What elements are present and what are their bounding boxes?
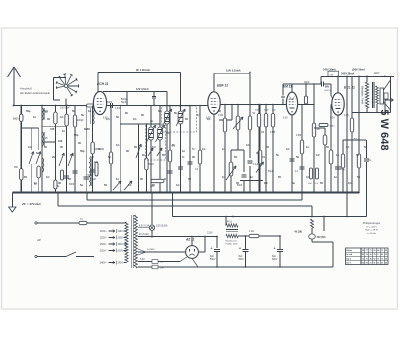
- svg-text:500V: 500V: [272, 259, 278, 261]
- svg-text:0,2: 0,2: [166, 117, 170, 121]
- svg-text:0,1: 0,1: [222, 175, 226, 179]
- svg-text:0,1: 0,1: [46, 175, 50, 179]
- svg-text:Pges = 28 W: Pges = 28 W: [365, 230, 379, 232]
- svg-text:77: 77: [366, 250, 368, 252]
- svg-text:6,3V: 6,3V: [103, 118, 108, 120]
- svg-text:5n: 5n: [80, 183, 83, 187]
- svg-text:50p: 50p: [74, 133, 79, 137]
- svg-text:0,1: 0,1: [133, 117, 137, 121]
- svg-text:1n: 1n: [222, 147, 225, 151]
- svg-text:6,3V: 6,3V: [140, 259, 145, 261]
- svg-text:21: 21: [381, 262, 383, 264]
- svg-text:110V~: 110V~: [100, 230, 108, 233]
- svg-text:5n: 5n: [292, 181, 295, 185]
- svg-text:50p: 50p: [80, 149, 85, 153]
- svg-text:0,1: 0,1: [60, 115, 64, 119]
- svg-text:71: 71: [377, 258, 379, 260]
- svg-text:125V: 125V: [118, 238, 124, 240]
- svg-text:der Seiten-Antennenspule: der Seiten-Antennenspule: [20, 91, 51, 95]
- svg-text:ZF 1 38 kHz: ZF 1 38 kHz: [136, 69, 151, 72]
- svg-text:0,1: 0,1: [348, 181, 352, 185]
- svg-text:1n: 1n: [62, 129, 65, 133]
- svg-text:79: 79: [381, 250, 383, 252]
- svg-text:1n: 1n: [306, 145, 309, 149]
- svg-text:500V: 500V: [210, 259, 216, 261]
- svg-text:AZ 11: AZ 11: [185, 238, 195, 242]
- svg-text:Ug V: Ug V: [346, 258, 351, 260]
- svg-text:79: 79: [373, 254, 375, 256]
- svg-text:150V: 150V: [118, 244, 124, 246]
- svg-text:0,1M: 0,1M: [218, 115, 223, 117]
- svg-text:8µF: 8µF: [272, 256, 277, 258]
- svg-text:EM 11: EM 11: [283, 85, 292, 89]
- svg-text:202V: 202V: [374, 73, 380, 75]
- svg-text:2n: 2n: [164, 177, 167, 181]
- svg-text:8µF: 8µF: [239, 256, 244, 258]
- svg-text:100pF: 100pF: [77, 120, 84, 122]
- svg-text:12V 4,5mA: 12V 4,5mA: [136, 88, 149, 91]
- svg-text:Röhre: Röhre: [346, 249, 353, 252]
- svg-text:0,25 (0,3)A: 0,25 (0,3)A: [156, 225, 168, 228]
- svg-text:5000: 5000: [69, 184, 75, 186]
- svg-text:21: 21: [370, 262, 372, 264]
- svg-text:6800: 6800: [13, 118, 19, 121]
- svg-text:242V 38mA: 242V 38mA: [341, 73, 355, 76]
- svg-text:0,1: 0,1: [286, 147, 290, 151]
- svg-text:50µF: 50µF: [268, 171, 274, 173]
- svg-text:0,1: 0,1: [28, 145, 32, 149]
- svg-text:470: 470: [50, 127, 55, 131]
- svg-text:5000: 5000: [330, 126, 336, 128]
- svg-text:30pF: 30pF: [304, 81, 310, 84]
- svg-text:245V 36mA: 245V 36mA: [323, 69, 336, 72]
- svg-text:62: 62: [373, 258, 375, 260]
- svg-text:62: 62: [385, 258, 387, 260]
- svg-text:ECL 11: ECL 11: [344, 85, 355, 89]
- svg-text:8µF: 8µF: [210, 256, 215, 258]
- svg-text:72: 72: [381, 258, 383, 260]
- svg-text:5n: 5n: [364, 145, 367, 149]
- svg-text:1M: 1M: [261, 132, 264, 134]
- svg-text:6,3V: 6,3V: [283, 118, 288, 120]
- svg-text:150V~: 150V~: [100, 243, 108, 246]
- svg-text:6,3V 0,3A: 6,3V 0,3A: [139, 225, 150, 228]
- svg-text:98V: 98V: [325, 87, 330, 89]
- svg-text:Ua V: Ua V: [346, 262, 351, 264]
- svg-text:2 kΩ: 2 kΩ: [249, 231, 254, 233]
- svg-text:0,2: 0,2: [264, 181, 268, 185]
- svg-text:0,1µF: 0,1µF: [253, 164, 260, 166]
- svg-text:32: 32: [362, 250, 364, 252]
- svg-text:0,1: 0,1: [128, 183, 132, 187]
- svg-text:35: 35: [385, 254, 387, 256]
- svg-text:240V: 240V: [118, 263, 124, 265]
- svg-text:6800: 6800: [84, 127, 90, 131]
- svg-text:31: 31: [366, 258, 368, 260]
- svg-text:5000: 5000: [264, 110, 270, 112]
- svg-text:46 Ω: 46 Ω: [227, 222, 232, 224]
- svg-text:1M: 1M: [317, 129, 320, 131]
- svg-text:49: 49: [377, 249, 379, 252]
- svg-text:72: 72: [362, 258, 364, 260]
- svg-text:18: 18: [373, 250, 375, 252]
- svg-text:0,2: 0,2: [316, 153, 320, 157]
- svg-text:+: +: [239, 247, 241, 251]
- svg-text:1nF: 1nF: [160, 262, 164, 264]
- svg-text:115V: 115V: [207, 233, 213, 235]
- svg-text:400 (50): 400 (50): [317, 236, 326, 239]
- svg-text:50p: 50p: [26, 109, 31, 113]
- svg-text:1n: 1n: [336, 153, 339, 157]
- svg-text:240V~: 240V~: [100, 262, 108, 265]
- svg-text:110V: 110V: [118, 231, 124, 233]
- svg-text:5n: 5n: [276, 153, 279, 157]
- svg-text:4n: 4n: [150, 119, 153, 123]
- svg-text:1nF: 1nF: [160, 267, 164, 269]
- svg-text:1n: 1n: [250, 175, 253, 179]
- svg-text:0,3M: 0,3M: [296, 135, 301, 137]
- svg-text:6,3V: 6,3V: [330, 118, 335, 120]
- svg-text:0,5: 0,5: [70, 153, 74, 157]
- svg-text:2×295V: 2×295V: [147, 248, 155, 251]
- svg-text:5000: 5000: [237, 185, 243, 187]
- svg-text:68: 68: [385, 262, 387, 264]
- svg-text:52: 52: [362, 262, 364, 264]
- svg-text:0,9V 0,25mA: 0,9V 0,25mA: [226, 70, 241, 73]
- svg-text:AP: AP: [36, 238, 41, 242]
- svg-text:4V (6,3A): 4V (6,3A): [139, 233, 149, 236]
- svg-text:50pF: 50pF: [121, 102, 127, 104]
- svg-text:+: +: [211, 247, 213, 251]
- svg-text:(24)V 30mA: (24)V 30mA: [352, 69, 365, 72]
- svg-text:10: 10: [370, 254, 372, 256]
- svg-text:6800: 6800: [43, 111, 49, 113]
- svg-text:0,1: 0,1: [306, 175, 310, 179]
- svg-text:5 W 648: 5 W 648: [378, 109, 390, 150]
- svg-text:0,1: 0,1: [176, 183, 180, 187]
- svg-text:1n: 1n: [34, 181, 37, 185]
- svg-text:0,5M: 0,5M: [270, 132, 275, 134]
- svg-text:(102V): (102V): [324, 90, 331, 92]
- svg-text:5000: 5000: [149, 164, 155, 166]
- svg-text:83: 83: [366, 262, 368, 264]
- svg-text:220V~: 220V~: [100, 250, 108, 253]
- svg-text:5n: 5n: [36, 151, 39, 155]
- svg-text:Netzdrossel: Netzdrossel: [226, 239, 238, 242]
- svg-text:82: 82: [362, 254, 364, 256]
- svg-text:1n: 1n: [33, 115, 36, 119]
- svg-text:500: 500: [14, 166, 19, 169]
- svg-text:1n: 1n: [197, 113, 200, 117]
- svg-text:f = 50 Hz: f = 50 Hz: [367, 233, 376, 235]
- svg-text:Ia mA: Ia mA: [346, 253, 352, 256]
- svg-text:U~ = 220 V: U~ = 220 V: [366, 226, 378, 228]
- svg-text:5n: 5n: [108, 155, 111, 159]
- svg-text:Prüfspannungen: Prüfspannungen: [363, 222, 381, 225]
- svg-text:0,1: 0,1: [116, 143, 120, 147]
- svg-text:+: +: [274, 247, 276, 251]
- svg-text:5000: 5000: [107, 102, 113, 104]
- svg-text:2n: 2n: [142, 153, 145, 157]
- svg-text:1M: 1M: [262, 157, 265, 159]
- svg-text:1nF: 1nF: [94, 162, 99, 164]
- svg-text:100: 100: [58, 139, 63, 143]
- svg-text:62: 62: [385, 250, 387, 252]
- svg-text:0,1: 0,1: [202, 147, 206, 151]
- svg-text:3: 3: [377, 254, 378, 256]
- svg-text:76: 76: [366, 254, 368, 256]
- svg-text:ECH 11: ECH 11: [97, 82, 108, 86]
- svg-text:1M: 1M: [90, 155, 94, 159]
- svg-text:40 (36): 40 (36): [294, 231, 302, 234]
- svg-text:0,35: 0,35: [344, 115, 349, 117]
- svg-text:Feldsp. (Vzf): Feldsp. (Vzf): [226, 243, 238, 245]
- svg-text:0,1: 0,1: [346, 145, 350, 149]
- svg-text:100 50pF: 100 50pF: [60, 108, 70, 110]
- svg-text:31: 31: [373, 262, 375, 264]
- svg-text:0,2: 0,2: [92, 177, 96, 181]
- svg-text:1n: 1n: [182, 149, 185, 153]
- svg-text:1n: 1n: [88, 109, 91, 113]
- svg-text:EBF 11: EBF 11: [217, 84, 228, 88]
- svg-text:71: 71: [370, 250, 372, 252]
- svg-text:125V~: 125V~: [100, 237, 108, 240]
- svg-text:1n: 1n: [116, 177, 119, 181]
- svg-text:Bandabst. Tonbl.: Bandabst. Tonbl.: [361, 86, 364, 105]
- svg-text:83: 83: [377, 262, 379, 264]
- svg-text:6,3V: 6,3V: [206, 118, 211, 120]
- svg-text:Anschluß: Anschluß: [19, 87, 32, 91]
- svg-text:1n: 1n: [334, 175, 337, 179]
- svg-text:0,2: 0,2: [152, 145, 156, 149]
- svg-text:0,1: 0,1: [246, 143, 250, 147]
- svg-text:ZF = 473 kHz: ZF = 473 kHz: [21, 202, 41, 206]
- svg-text:220V: 220V: [118, 251, 124, 253]
- svg-text:62: 62: [381, 254, 383, 256]
- svg-text:26: 26: [370, 258, 372, 260]
- svg-text:500V: 500V: [239, 259, 245, 261]
